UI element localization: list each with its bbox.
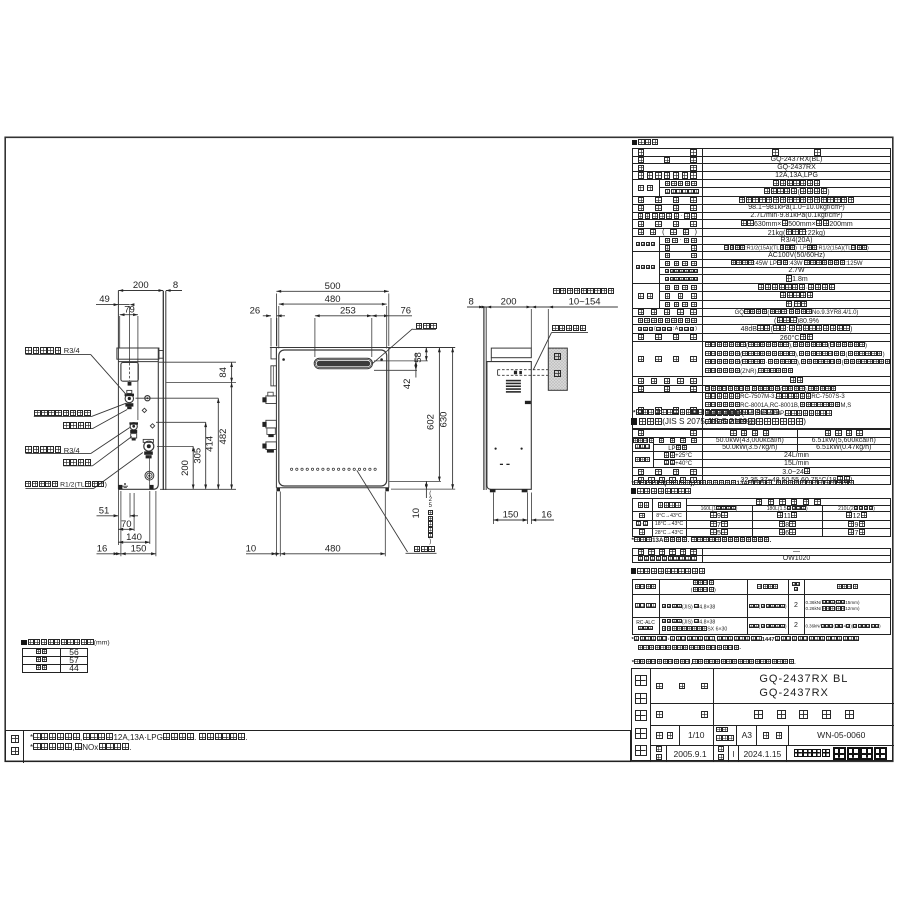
- front view dim 500: [276, 290, 388, 292]
- bath fill time table: [632, 498, 891, 538]
- front view bottom extension lines: [275, 492, 277, 557]
- front view dim 630: [452, 348, 454, 490]
- front view dim 480 top: [279, 303, 387, 305]
- right view top bracket: [491, 348, 531, 358]
- right view side clip: [525, 401, 531, 404]
- svg-text:16: 16: [541, 510, 552, 521]
- label overpressure safety device: [34, 409, 94, 418]
- front view wall plate top line: [270, 347, 455, 349]
- front view dim 10 adjustable: [425, 481, 427, 498]
- joint height table title: [21, 639, 141, 647]
- left view dim 79: [120, 314, 138, 316]
- left view dim 70: [118, 528, 134, 530]
- front view dim 58: [425, 348, 427, 361]
- svg-text:49: 49: [99, 294, 110, 305]
- front view top extension lines: [275, 294, 277, 347]
- left view dim 140: [118, 541, 149, 543]
- left view dim 16 and 150: [97, 553, 156, 555]
- spec table title: [632, 139, 712, 147]
- mounting plate label leader: [552, 332, 589, 334]
- left view dim 482: [231, 383, 233, 490]
- left view dim 51: [97, 515, 119, 517]
- bath table title: [631, 488, 831, 496]
- right view screw dots: [495, 448, 497, 450]
- left view right extension lines: [159, 361, 236, 363]
- left view wall plate: [162, 291, 164, 490]
- left view diamond mark 1: [142, 408, 146, 412]
- left view cold water valve: [130, 423, 137, 430]
- left view body left edge + extension: [117, 291, 119, 490]
- front view pipe stub hot water: [266, 396, 277, 404]
- left view body right edge: [118, 348, 158, 489]
- right view bottom extension lines: [492, 493, 494, 525]
- front view body outline: [279, 350, 387, 486]
- capacity table: [632, 429, 891, 485]
- label drain plug 1: [63, 421, 95, 430]
- fixing table footnote: [632, 636, 890, 652]
- label outer wall characters: [552, 353, 564, 360]
- left view dim 200 vertical: [192, 446, 194, 489]
- spec table main: [632, 148, 891, 428]
- right view feet: [490, 489, 496, 492]
- left view ringed circle: [145, 471, 154, 480]
- svg-text:482: 482: [218, 429, 229, 445]
- left view ext line 200: [157, 445, 193, 447]
- svg-text:414: 414: [205, 436, 216, 452]
- right view wall plate: [483, 307, 485, 490]
- svg-text:150: 150: [131, 543, 147, 554]
- fixing spec table: [632, 579, 891, 636]
- front view exhaust label leader: [373, 329, 413, 364]
- svg-text:140: 140: [126, 532, 142, 543]
- svg-text:200: 200: [180, 460, 191, 476]
- right view body outline: [487, 362, 531, 490]
- spec table footnote: [633, 409, 883, 416]
- right view mounting plate dashed: [498, 369, 549, 371]
- capacity table title: [631, 417, 891, 426]
- left view ext line 305: [156, 421, 206, 423]
- left view small port circle: [145, 396, 150, 401]
- svg-text:42: 42: [402, 379, 413, 390]
- left view dim 84: [231, 362, 233, 382]
- front view bottom dims 10 and 480: [246, 553, 276, 555]
- svg-text:8: 8: [469, 297, 474, 308]
- right view louver vents: [506, 380, 521, 382]
- svg-text:76: 76: [401, 306, 412, 317]
- svg-text:70: 70: [121, 519, 132, 530]
- left view dim 200: [118, 290, 163, 292]
- front view intake label leader: [357, 470, 408, 552]
- svg-text:200: 200: [501, 297, 517, 308]
- left view dim extension lines top: [129, 306, 131, 363]
- sheet border frame: [5, 137, 893, 761]
- left view recess box: [121, 363, 138, 382]
- bath table footnote: [632, 537, 890, 544]
- right view top extension lines: [530, 309, 532, 348]
- left view dim 49: [96, 304, 130, 306]
- svg-text:51: 51: [99, 505, 110, 516]
- svg-text:16: 16: [97, 543, 108, 554]
- front view intake holes row: [290, 468, 292, 470]
- label mounting plate: [552, 325, 592, 333]
- front view feet: [277, 488, 281, 492]
- fixing table title: [631, 568, 851, 576]
- front view top-left ear bracket: [271, 348, 276, 359]
- left view ext line 414: [136, 397, 219, 399]
- front view pipe stub cold water: [266, 420, 277, 428]
- title block Noritz logo: [631, 668, 893, 761]
- left view gas center line: [148, 456, 150, 490]
- label exhaust port front view: [416, 322, 440, 331]
- left view hot water valve: [125, 394, 133, 402]
- capacity table footnote: [632, 480, 890, 487]
- joint height table: [22, 648, 87, 674]
- left view top mounting bracket: [117, 348, 159, 359]
- label mounting plate adjustment range: [553, 288, 619, 296]
- left view feet: [118, 485, 122, 489]
- left view dim 414: [217, 398, 219, 489]
- front view dim 26: [263, 315, 271, 317]
- front view exhaust vent: [314, 358, 372, 369]
- front view screws: [282, 358, 285, 361]
- front view wall plate sides and bottom: [275, 348, 277, 488]
- front view pipe stub gas: [266, 442, 277, 450]
- left view dim 305: [205, 422, 207, 489]
- label gas connection R1/2: [25, 481, 97, 489]
- front view dim 76: [372, 315, 412, 317]
- label intake port front view: [414, 545, 438, 554]
- svg-text:10: 10: [411, 508, 422, 519]
- general footnote above title block: [632, 659, 892, 666]
- certification table: [632, 548, 891, 563]
- label cold water connection R3/4: [25, 446, 95, 455]
- front view dim 42: [415, 354, 417, 378]
- right view top dim line: [467, 306, 618, 308]
- svg-text:480: 480: [325, 543, 341, 554]
- svg-text:253: 253: [340, 306, 356, 317]
- left view label leaders: [25, 353, 90, 355]
- left view body top line: [118, 361, 158, 363]
- svg-text:480: 480: [325, 294, 341, 305]
- svg-text:602: 602: [425, 414, 436, 430]
- svg-text:10~154: 10~154: [569, 297, 601, 308]
- right view dim 150: [493, 519, 527, 521]
- svg-text:150: 150: [503, 510, 519, 521]
- front view left bracket: [271, 366, 277, 386]
- right view small dashes: [500, 464, 503, 465]
- svg-text:10: 10: [246, 543, 257, 554]
- left view diamond mark 2: [150, 424, 154, 428]
- svg-text:8: 8: [173, 280, 178, 291]
- svg-text:26: 26: [250, 306, 261, 317]
- front view dim 253: [315, 315, 372, 317]
- left view dim 8: [166, 290, 182, 292]
- right view dim 16: [531, 519, 554, 521]
- label hot water connection R3/4: [25, 346, 95, 355]
- svg-text:200: 200: [133, 280, 149, 291]
- note box: [5, 730, 631, 762]
- left view earth mark: [123, 485, 129, 487]
- left view bottom extension lines: [117, 489, 119, 545]
- label drain plug 2: [63, 458, 95, 467]
- svg-text:630: 630: [439, 412, 450, 428]
- front view dim 602: [438, 348, 440, 482]
- label 25mm adjustable rotated: [425, 491, 435, 546]
- left view gas valve: [144, 441, 154, 451]
- svg-text:500: 500: [325, 281, 341, 292]
- svg-text:84: 84: [218, 367, 229, 378]
